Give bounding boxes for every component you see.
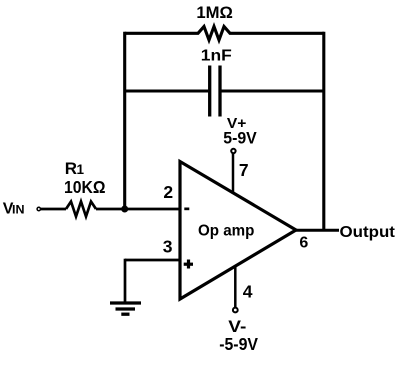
node junction dot at feedback/input [121, 206, 128, 213]
terminal V- circle [233, 308, 238, 313]
svg-text:1nF: 1nF [201, 47, 232, 64]
capacitor C1 plates [208, 66, 211, 117]
svg-text:Output: Output [340, 224, 396, 241]
terminal V+ circle [231, 149, 235, 153]
svg-text:5-9V: 5-9V [223, 129, 257, 148]
wire: capacitor branch right [221, 89, 323, 92]
svg-text:4: 4 [243, 282, 253, 302]
minus sign at inverting input [184, 208, 189, 211]
wire: pin 7 vertical [232, 153, 235, 194]
svg-text:Op amp: Op amp [198, 223, 255, 240]
wire: input to resistor R1 [41, 208, 66, 211]
wire: pin3 horizontal [125, 259, 180, 262]
op-amp U1 triangle [180, 162, 296, 300]
svg-text:6: 6 [299, 235, 308, 252]
wire: left vertical feedback [123, 32, 126, 209]
node VIN input terminal [37, 207, 40, 210]
wire: top feedback with resistor zigzag [125, 27, 324, 41]
wire: pin 4 vertical [234, 267, 237, 308]
resistor R1 zigzag [66, 202, 96, 217]
wire: output [296, 229, 339, 232]
svg-text:10KΩ: 10KΩ [64, 177, 106, 197]
wire: resistor R1 to inverting input [96, 208, 180, 211]
wire: pin3 down to ground [124, 259, 127, 303]
ground [110, 303, 141, 314]
svg-text:1MΩ: 1MΩ [196, 3, 233, 22]
wire: right vertical feedback [322, 32, 325, 231]
svg-text:2: 2 [163, 182, 173, 202]
svg-text:R: R [65, 159, 77, 178]
svg-text:7: 7 [239, 160, 249, 180]
wire: capacitor branch left [125, 89, 209, 92]
svg-text:-5-9V: -5-9V [219, 334, 258, 354]
svg-text:3: 3 [163, 237, 173, 257]
svg-text:1: 1 [77, 162, 85, 177]
plus sign at non-inverting input [184, 263, 193, 266]
svg-text:IN: IN [12, 202, 25, 216]
